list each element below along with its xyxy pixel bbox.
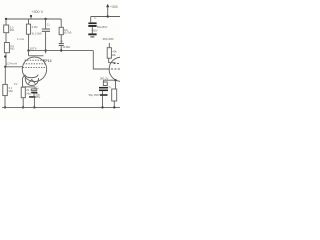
junction dot supply entry [30,15,32,17]
wire rail corner to C8 [90,17,92,23]
wire anode resistor column top [28,19,30,24]
ground bus [2,106,120,108]
svg-text:Cₖ: Cₖ [60,39,64,43]
svg-text:50μ 250V: 50μ 250V [89,93,100,97]
wire C8 to ground symbol [91,27,93,34]
wire Ca to anode node [45,32,47,51]
wire right supply rail [91,16,120,18]
wire cathode branch to C7 [104,80,116,82]
svg-text:1 mA: 1 mA [17,37,24,41]
svg-text:EF12: EF12 [43,59,52,63]
svg-text:180.2V: 180.2V [100,77,109,81]
wire Rg2b to screen of V2 [109,58,116,63]
grid g2 of V1 (dashed) [23,63,46,65]
capacitor Ca wire from rail [45,19,47,29]
wire screen resistor V2 stub [108,43,110,48]
cathode of V1 [25,75,38,78]
capacitor Ck cup electrode [31,89,37,91]
wire Rk2 to bus [113,101,115,107]
junction cathode split [23,86,36,88]
svg-text:360-380: 360-380 [102,37,113,41]
junction dot V2 cathode [114,79,116,81]
svg-text:25V: 25V [36,95,41,99]
capacitor C7 plate 1 [99,87,108,89]
wire Cg to anode line [60,46,62,51]
anode bar of tube V1 [29,55,44,57]
resistor Rk [21,87,25,98]
grid g1 of V1 (dashed) [25,59,45,61]
svg-text:Cₖ: Cₖ [47,22,51,26]
capacitor C7 cup electrode [103,82,107,86]
svg-text:(0,1-2M): (0,1-2M) [32,31,42,35]
arrowhead +300 right [106,4,109,7]
wire R2 down to screen tap [5,53,7,67]
svg-text:MΩ: MΩ [9,89,13,93]
wire R1 to R2 [5,33,7,43]
cathode lead of V2 [115,80,117,90]
capacitor C7 plate 3 [100,94,108,96]
junction dot anode mid [44,49,46,51]
junction dot screen tap [4,55,6,57]
svg-text:20k: 20k [112,53,117,57]
capacitor Ca plates [42,29,50,31]
wire Rk to bus [22,98,24,108]
grid g1 of V2 (dashed) [111,68,120,70]
heater V inside [28,80,35,84]
svg-text:107V: 107V [30,47,37,51]
heater of V1 [25,78,38,85]
junction dot screen line [4,66,6,68]
capacitor C7 plate 2 [99,90,108,92]
wire divider column upper [5,19,7,25]
junction dot Rk bus [22,106,24,108]
resistor Rg2 [59,27,63,34]
resistor Ra [26,24,30,34]
junction dot C7 bus [101,106,103,108]
svg-text:+300 V: +300 V [31,10,43,14]
wire Ra to anode node [28,34,30,50]
resistor R1 [4,25,9,33]
node supply entry +300V [30,16,32,20]
wire Rg2 to Cg [60,35,62,44]
wire R3 to ground bus [4,96,6,108]
capacitor C7 wire mid [102,91,104,94]
junction dot right rail [107,15,109,17]
capacitor Ck wire mid [33,93,35,96]
junction dot Cg bottom [60,49,62,51]
resistor R2 [4,43,9,53]
wire coupling drop to tube V2 grid [93,51,110,69]
svg-text:1V: 1V [14,82,18,86]
svg-text:0,24 mA: 0,24 mA [6,61,17,65]
anode stub from Ca node [45,51,47,54]
resistor Rk2 [112,89,117,101]
wire screen resistor column (rail corner) [60,19,62,27]
capacitor Ck top wire [34,87,36,89]
junction dot Ck bus [33,106,35,108]
svg-text:Cₖ: Cₖ [36,85,40,89]
resistor Rg2b [107,48,111,59]
wire +300 stub right [107,7,109,16]
capacitor Cg plates [59,44,64,46]
junction dot divider top [5,18,7,20]
junction dot Rk2 bus [113,106,115,108]
wire tap down to R3 [4,67,6,85]
junction dot anode left [27,49,29,51]
svg-text:MΩ: MΩ [10,47,14,51]
svg-text:40k: 40k [112,49,117,53]
grid g2 of V2 (dashed) [114,63,121,65]
capacitor Ck plate 1 [31,92,37,94]
ground symbol bar 2 [90,36,94,37]
wire C7 to bus [102,96,104,108]
svg-text:50μ450V: 50μ450V [97,25,108,29]
svg-text:10 MΩ: 10 MΩ [62,45,70,49]
cathode lead of V1 [23,75,25,87]
resistor R3 [3,84,8,95]
grid g3 of V1 (dashed) [23,67,46,69]
capacitor Ck plate 2 [29,96,35,98]
svg-text:450V: 450V [92,29,98,33]
capacitor C8 cup electrode [88,22,96,24]
junction dot R3 bus [4,106,6,108]
ground symbol bar [88,33,96,35]
wire screen feed to tube [5,66,22,68]
wire top supply rail left [5,18,61,20]
tube V2 envelope [109,57,133,81]
capacitor C8 plate [88,25,96,27]
junction dot Ca top [44,18,46,20]
svg-text:MΩ: MΩ [10,28,14,32]
svg-text:(0,7M): (0,7M) [64,31,72,35]
svg-text:0,2M: 0,2M [32,25,38,29]
tube V1 envelope [22,57,46,81]
svg-text:+300: +300 [110,5,118,9]
wire Ck to bus [33,98,35,108]
svg-text:(4k): (4k) [26,91,31,95]
wire anode line [29,50,94,52]
anode lead of tube V1 [28,51,30,56]
svg-text:Cₖ: Cₖ [109,85,113,89]
